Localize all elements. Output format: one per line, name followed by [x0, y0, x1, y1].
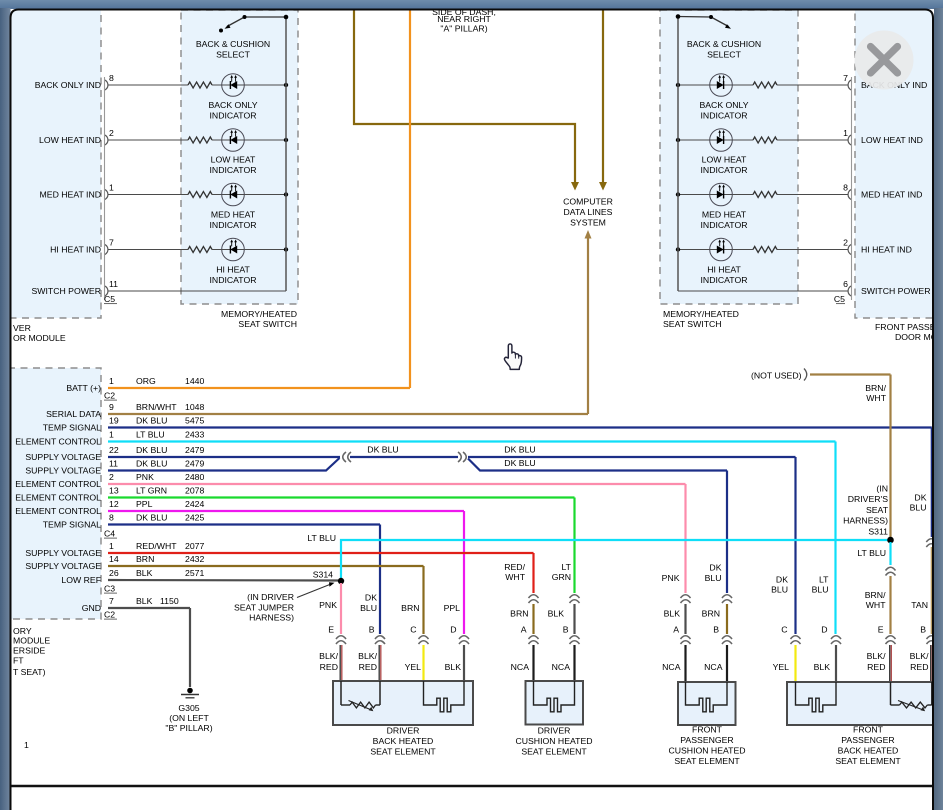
- svg-text:2: 2: [109, 472, 114, 482]
- svg-text:ORG: ORG: [136, 376, 156, 386]
- svg-text:DATA LINES: DATA LINES: [564, 207, 613, 217]
- svg-text:(NOT USED): (NOT USED): [751, 371, 802, 381]
- svg-text:MED HEAT IND: MED HEAT IND: [40, 190, 101, 200]
- svg-text:8: 8: [109, 513, 114, 523]
- svg-text:ELEMENT CONTROL: ELEMENT CONTROL: [15, 437, 101, 447]
- svg-text:BLK: BLK: [814, 662, 831, 672]
- svg-text:1: 1: [24, 740, 29, 750]
- svg-text:SUPPLY VOLTAGE: SUPPLY VOLTAGE: [25, 452, 101, 462]
- svg-text:DK BLU: DK BLU: [367, 445, 398, 455]
- svg-text:CUSHION HEATED: CUSHION HEATED: [668, 746, 745, 756]
- svg-text:LT: LT: [562, 562, 572, 572]
- svg-text:ORY: ORY: [13, 626, 32, 636]
- svg-text:B: B: [563, 625, 569, 635]
- svg-text:BLU: BLU: [910, 503, 927, 513]
- svg-text:LT BLU: LT BLU: [136, 430, 165, 440]
- svg-text:BACK & CUSHION: BACK & CUSHION: [687, 39, 761, 49]
- svg-text:BACK & CUSHION: BACK & CUSHION: [196, 39, 270, 49]
- svg-text:2: 2: [843, 238, 848, 248]
- svg-text:WHT: WHT: [866, 600, 886, 610]
- svg-text:S314: S314: [313, 570, 333, 580]
- svg-text:2433: 2433: [185, 430, 204, 440]
- svg-text:26: 26: [109, 568, 119, 578]
- svg-text:INDICATOR: INDICATOR: [701, 275, 748, 285]
- svg-text:BRN/WHT: BRN/WHT: [136, 402, 177, 412]
- svg-text:SEAT SWITCH: SEAT SWITCH: [663, 319, 722, 329]
- svg-text:BACK ONLY IND: BACK ONLY IND: [35, 80, 101, 90]
- svg-text:6: 6: [843, 279, 848, 289]
- svg-text:PNK: PNK: [662, 573, 680, 583]
- svg-text:BRN: BRN: [702, 609, 720, 619]
- svg-text:13: 13: [109, 486, 119, 496]
- svg-text:C3: C3: [104, 584, 115, 594]
- svg-text:TEMP SIGNAL: TEMP SIGNAL: [43, 520, 101, 530]
- svg-text:BRN: BRN: [510, 609, 528, 619]
- svg-text:DRIVER'S: DRIVER'S: [848, 494, 888, 504]
- svg-text:1: 1: [843, 128, 848, 138]
- svg-text:2480: 2480: [185, 472, 204, 482]
- svg-text:MED HEAT: MED HEAT: [211, 210, 256, 220]
- svg-text:FRONT: FRONT: [853, 725, 884, 735]
- svg-text:LOW HEAT IND: LOW HEAT IND: [39, 135, 101, 145]
- svg-text:C4: C4: [104, 529, 115, 539]
- svg-text:DK: DK: [776, 575, 788, 585]
- svg-text:RED: RED: [910, 662, 928, 672]
- svg-text:12: 12: [109, 499, 119, 509]
- svg-text:HARNESS): HARNESS): [249, 613, 294, 623]
- svg-text:TAN: TAN: [911, 600, 928, 610]
- svg-text:C5: C5: [104, 294, 115, 304]
- svg-text:TEMP SIGNAL: TEMP SIGNAL: [43, 423, 101, 433]
- svg-text:1: 1: [109, 541, 114, 551]
- svg-text:B: B: [369, 625, 375, 635]
- svg-text:LOW HEAT: LOW HEAT: [211, 155, 256, 165]
- svg-text:PPL: PPL: [444, 603, 461, 613]
- svg-text:S311: S311: [868, 526, 888, 536]
- svg-text:PNK: PNK: [136, 472, 154, 482]
- svg-text:SERIAL DATA: SERIAL DATA: [46, 409, 101, 419]
- svg-text:7: 7: [843, 73, 848, 83]
- svg-text:BRN: BRN: [136, 554, 154, 564]
- svg-text:1150: 1150: [160, 596, 179, 606]
- svg-text:BLK: BLK: [445, 662, 462, 672]
- svg-text:SUPPLY VOLTAGE: SUPPLY VOLTAGE: [25, 466, 101, 476]
- svg-text:B: B: [713, 625, 719, 635]
- svg-text:HI HEAT IND: HI HEAT IND: [50, 245, 101, 255]
- svg-text:8: 8: [109, 73, 114, 83]
- svg-text:BLK/: BLK/: [358, 651, 377, 661]
- svg-text:NCA: NCA: [704, 662, 723, 672]
- svg-text:22: 22: [109, 445, 119, 455]
- svg-text:E: E: [328, 625, 334, 635]
- svg-text:PASSENGER: PASSENGER: [841, 735, 894, 745]
- svg-text:WHT: WHT: [866, 393, 886, 403]
- svg-text:BLK/: BLK/: [319, 651, 338, 661]
- svg-text:2425: 2425: [185, 513, 204, 523]
- svg-text:(IN DRIVER: (IN DRIVER: [247, 592, 294, 602]
- svg-text:SUPPLY VOLTAGE: SUPPLY VOLTAGE: [25, 561, 101, 571]
- svg-text:MEMORY/HEATED: MEMORY/HEATED: [221, 309, 297, 319]
- svg-text:ELEMENT CONTROL: ELEMENT CONTROL: [15, 479, 101, 489]
- svg-text:MODULE: MODULE: [13, 636, 50, 646]
- svg-text:DK BLU: DK BLU: [504, 445, 535, 455]
- svg-text:GND: GND: [82, 603, 101, 613]
- svg-text:NCA: NCA: [552, 662, 571, 672]
- svg-text:11: 11: [109, 279, 118, 289]
- svg-text:INDICATOR: INDICATOR: [210, 111, 257, 121]
- svg-text:BLK: BLK: [664, 609, 681, 619]
- svg-text:CUSHION HEATED: CUSHION HEATED: [515, 736, 592, 746]
- svg-text:RED/WHT: RED/WHT: [136, 541, 177, 551]
- svg-text:14: 14: [109, 554, 119, 564]
- svg-text:T SEAT): T SEAT): [13, 667, 46, 677]
- svg-text:MEMORY/HEATED: MEMORY/HEATED: [663, 309, 739, 319]
- svg-text:NCA: NCA: [511, 662, 530, 672]
- svg-text:LOW HEAT IND: LOW HEAT IND: [861, 135, 923, 145]
- svg-text:A: A: [673, 625, 679, 635]
- svg-text:RED: RED: [359, 662, 377, 672]
- svg-text:DRIVER: DRIVER: [387, 726, 420, 736]
- svg-text:SEAT SWITCH: SEAT SWITCH: [238, 319, 297, 329]
- svg-text:G305: G305: [178, 703, 199, 713]
- svg-text:BRN: BRN: [401, 603, 419, 613]
- svg-text:MED HEAT: MED HEAT: [702, 210, 747, 220]
- svg-text:HI HEAT: HI HEAT: [707, 265, 741, 275]
- svg-text:BRN/: BRN/: [865, 383, 886, 393]
- svg-text:E: E: [878, 625, 884, 635]
- svg-text:D: D: [821, 625, 827, 635]
- svg-text:PPL: PPL: [136, 499, 153, 509]
- svg-text:INDICATOR: INDICATOR: [210, 220, 257, 230]
- svg-text:LOW HEAT: LOW HEAT: [702, 155, 747, 165]
- svg-text:DK BLU: DK BLU: [504, 458, 535, 468]
- svg-text:D: D: [450, 625, 456, 635]
- svg-text:2078: 2078: [185, 486, 204, 496]
- svg-text:BLK: BLK: [548, 609, 565, 619]
- svg-text:BLK/: BLK/: [867, 651, 886, 661]
- svg-text:RED/: RED/: [504, 562, 525, 572]
- svg-text:SUPPLY VOLTAGE: SUPPLY VOLTAGE: [25, 548, 101, 558]
- svg-text:2424: 2424: [185, 499, 204, 509]
- svg-text:BLU: BLU: [771, 585, 788, 595]
- svg-text:INDICATOR: INDICATOR: [701, 165, 748, 175]
- svg-text:ELEMENT CONTROL: ELEMENT CONTROL: [15, 493, 101, 503]
- svg-text:"A" PILLAR): "A" PILLAR): [440, 24, 487, 34]
- svg-text:C2: C2: [104, 610, 115, 620]
- svg-text:HI HEAT IND: HI HEAT IND: [861, 245, 912, 255]
- svg-text:BACK HEATED: BACK HEATED: [373, 736, 434, 746]
- svg-text:INDICATOR: INDICATOR: [701, 111, 748, 121]
- svg-text:1: 1: [109, 430, 114, 440]
- svg-text:RED: RED: [867, 662, 885, 672]
- svg-text:DK: DK: [709, 563, 721, 573]
- svg-text:A: A: [521, 625, 527, 635]
- svg-text:INDICATOR: INDICATOR: [210, 165, 257, 175]
- svg-text:YEL: YEL: [405, 662, 422, 672]
- svg-text:1440: 1440: [185, 376, 204, 386]
- svg-text:DK: DK: [914, 493, 926, 503]
- svg-text:2077: 2077: [185, 541, 204, 551]
- svg-text:2479: 2479: [185, 445, 204, 455]
- svg-text:SEAT ELEMENT: SEAT ELEMENT: [370, 747, 436, 757]
- svg-text:WHT: WHT: [505, 572, 525, 582]
- svg-text:LT GRN: LT GRN: [136, 486, 167, 496]
- svg-text:COMPUTER: COMPUTER: [563, 197, 613, 207]
- svg-text:SEAT JUMPER: SEAT JUMPER: [234, 602, 294, 612]
- svg-text:SELECT: SELECT: [707, 50, 741, 60]
- svg-text:PNK: PNK: [319, 600, 337, 610]
- svg-text:SEAT: SEAT: [866, 505, 889, 515]
- svg-text:SWITCH POWER: SWITCH POWER: [32, 286, 102, 296]
- svg-text:BACK ONLY: BACK ONLY: [208, 100, 257, 110]
- svg-text:2432: 2432: [185, 554, 204, 564]
- svg-text:5475: 5475: [185, 416, 204, 426]
- svg-text:SELECT: SELECT: [216, 50, 250, 60]
- svg-text:9: 9: [109, 402, 114, 412]
- svg-text:DK BLU: DK BLU: [136, 513, 167, 523]
- svg-text:11: 11: [109, 459, 118, 469]
- svg-text:DK: DK: [365, 593, 377, 603]
- svg-text:C2: C2: [104, 391, 115, 401]
- svg-text:8: 8: [843, 183, 848, 193]
- svg-text:C5: C5: [834, 294, 845, 304]
- svg-text:DK BLU: DK BLU: [136, 416, 167, 426]
- svg-text:ERSIDE: ERSIDE: [13, 646, 46, 656]
- svg-text:VER: VER: [13, 323, 31, 333]
- svg-text:7: 7: [109, 238, 114, 248]
- svg-text:C: C: [781, 625, 787, 635]
- svg-text:BLU: BLU: [360, 603, 377, 613]
- svg-text:BRN/: BRN/: [865, 590, 886, 600]
- svg-text:LOW REF: LOW REF: [61, 575, 101, 585]
- svg-text:2479: 2479: [185, 459, 204, 469]
- svg-text:PASSENGER: PASSENGER: [680, 735, 733, 745]
- svg-text:7: 7: [109, 596, 114, 606]
- svg-text:INDICATOR: INDICATOR: [701, 220, 748, 230]
- svg-text:MED HEAT IND: MED HEAT IND: [861, 190, 922, 200]
- svg-text:LT BLU: LT BLU: [307, 533, 336, 543]
- svg-text:BLK/: BLK/: [910, 651, 929, 661]
- svg-text:C: C: [410, 625, 416, 635]
- svg-text:1: 1: [109, 183, 114, 193]
- svg-text:(IN: (IN: [876, 484, 888, 494]
- svg-text:1: 1: [109, 376, 114, 386]
- svg-text:DRIVER: DRIVER: [538, 726, 571, 736]
- svg-text:1048: 1048: [185, 402, 204, 412]
- svg-text:LT: LT: [819, 575, 829, 585]
- svg-text:BLU: BLU: [705, 573, 722, 583]
- svg-text:INDICATOR: INDICATOR: [210, 275, 257, 285]
- svg-text:GRN: GRN: [552, 572, 571, 582]
- svg-text:19: 19: [109, 416, 119, 426]
- svg-text:YEL: YEL: [773, 662, 790, 672]
- svg-text:HARNESS): HARNESS): [843, 516, 888, 526]
- svg-text:FRONT: FRONT: [692, 725, 723, 735]
- svg-text:ELEMENT CONTROL: ELEMENT CONTROL: [15, 506, 101, 516]
- svg-text:HI HEAT: HI HEAT: [216, 265, 250, 275]
- svg-text:SEAT ELEMENT: SEAT ELEMENT: [674, 756, 740, 766]
- svg-text:BACK HEATED: BACK HEATED: [838, 746, 899, 756]
- svg-text:DK BLU: DK BLU: [136, 445, 167, 455]
- svg-text:2: 2: [109, 128, 114, 138]
- svg-text:NCA: NCA: [662, 662, 681, 672]
- svg-text:BACK ONLY: BACK ONLY: [699, 100, 748, 110]
- svg-text:2571: 2571: [185, 568, 204, 578]
- svg-text:"B" PILLAR): "B" PILLAR): [165, 723, 212, 733]
- svg-text:OR MODULE: OR MODULE: [13, 333, 66, 343]
- svg-text:(ON LEFT: (ON LEFT: [169, 713, 209, 723]
- svg-text:LT BLU: LT BLU: [857, 548, 886, 558]
- svg-text:FT: FT: [13, 656, 24, 666]
- svg-text:BATT (+): BATT (+): [66, 383, 101, 393]
- svg-text:BLU: BLU: [812, 585, 829, 595]
- svg-text:SWITCH POWER: SWITCH POWER: [861, 286, 931, 296]
- svg-text:DK BLU: DK BLU: [136, 459, 167, 469]
- svg-text:SEAT ELEMENT: SEAT ELEMENT: [521, 747, 587, 757]
- svg-text:BLK: BLK: [136, 568, 153, 578]
- svg-text:SEAT ELEMENT: SEAT ELEMENT: [835, 756, 901, 766]
- svg-text:NEAR RIGHT: NEAR RIGHT: [437, 14, 491, 24]
- svg-text:BLK: BLK: [136, 596, 153, 606]
- svg-text:SYSTEM: SYSTEM: [570, 218, 606, 228]
- svg-text:B: B: [920, 625, 926, 635]
- svg-text:RED: RED: [320, 662, 338, 672]
